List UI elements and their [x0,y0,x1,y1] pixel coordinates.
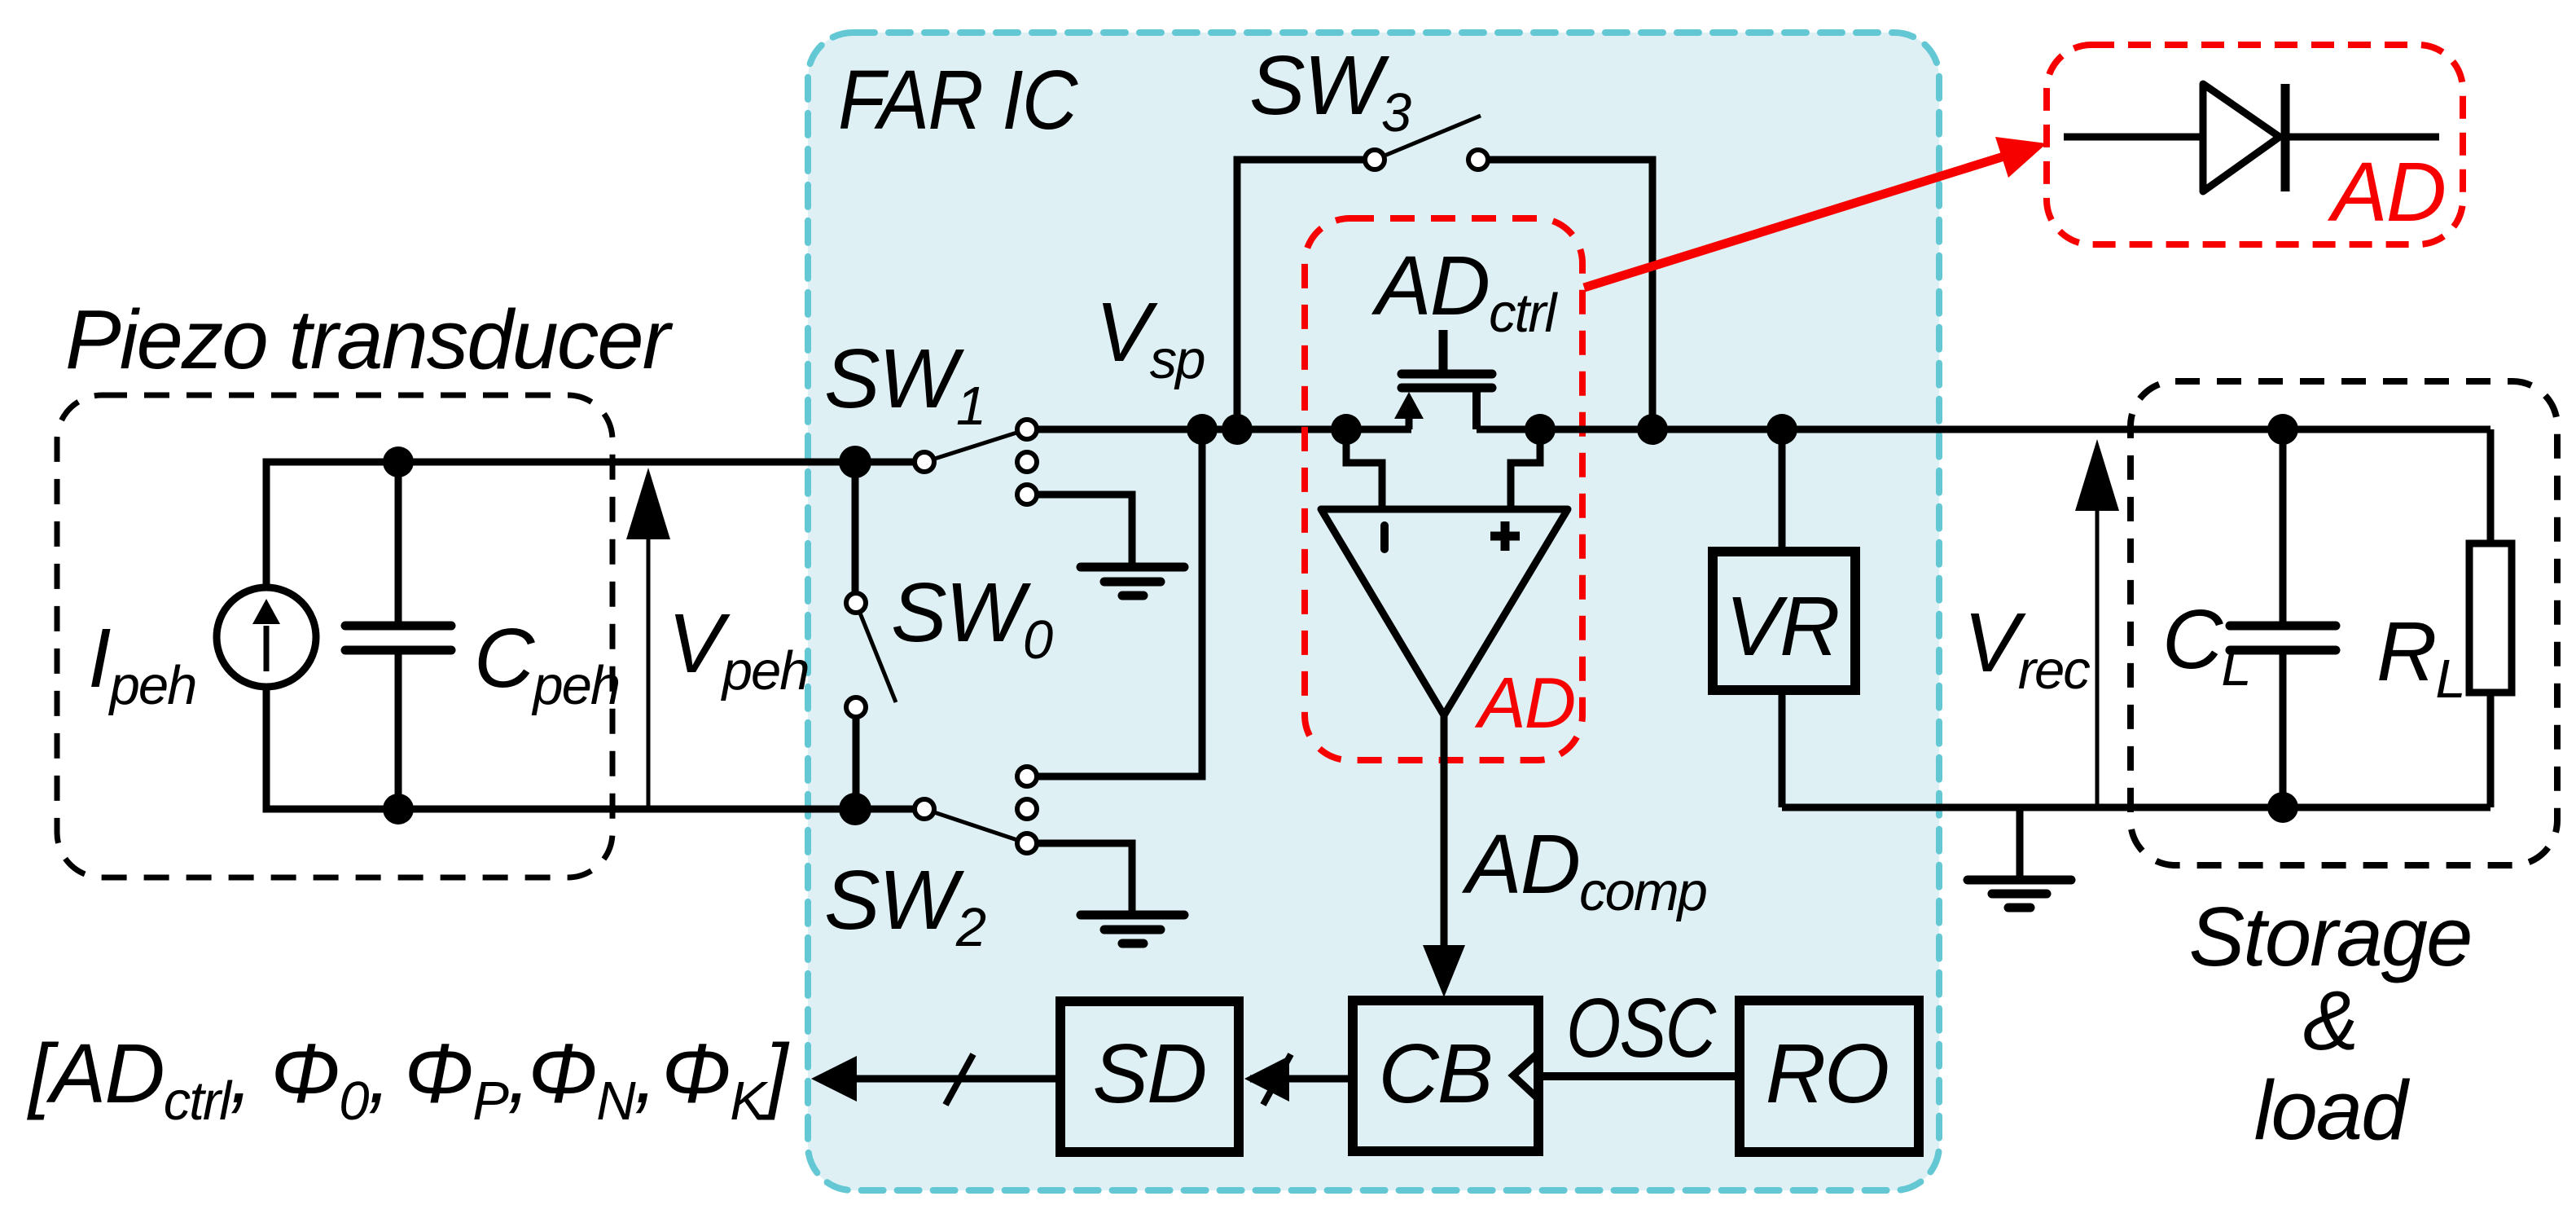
svg-text:CL: CL [2162,592,2250,697]
wire bottom rail right [1782,804,2490,811]
block VR voltage reference [1713,429,1855,807]
wire ADcomp comparator output arrow [1423,715,1707,997]
wire bus to comparator minus input [1346,429,1382,508]
svg-text:AD: AD [1474,662,1574,743]
svg-text:VR: VR [1725,579,1838,673]
svg-text:Φ0,: Φ0, [270,1027,389,1132]
transistor ADctrl [1371,239,1559,429]
resistor RL [2376,429,2512,807]
ground (SW2) [1081,915,1184,943]
node CL bottom [2267,792,2298,823]
switch SW3 [1237,38,1652,429]
Piezo transducer region box [57,292,674,877]
switch SW0 [855,462,1053,809]
Vpeh voltage arrow [626,468,809,809]
svg-text:ΦK]: ΦK] [661,1027,790,1132]
block RO [1740,1001,1919,1152]
wire SW2 bottom throw to ground [1027,843,1132,911]
node piezo top junction [383,446,414,477]
node SW2 pole [839,793,871,825]
switch SW2 [824,809,1027,958]
node SW1 pole [839,446,871,478]
wire Vsp bus (left of ADctrl transistor) [1027,426,1411,433]
node Vsp [1095,285,1253,445]
wire piezo top rail [266,462,924,588]
red callout arrow to AD legend [1584,137,2047,288]
svg-text:Vpeh: Vpeh [668,596,809,701]
switch SW1 [824,332,1027,462]
ground (output rail) [1968,807,2071,908]
wire SD output bus arrow [811,1054,1060,1105]
node bus right of transistor [1525,414,1556,445]
diode AD symbol [2064,84,2445,239]
wire SW1 top throw to Vsp bus [1027,426,1202,433]
Storage and load region box [2131,381,2557,1157]
svg-text:RO: RO [1766,1027,1889,1120]
wire OSC from RO to CB [1538,982,1740,1076]
SW3 contacts [1365,150,1488,169]
AD diode legend dashed box [2047,45,2463,244]
node CL top [2267,414,2298,445]
capacitor CL [2162,429,2336,807]
svg-text:[ADctrl,: [ADctrl, [27,1027,252,1132]
block SD [1060,1001,1239,1152]
svg-text:Ipeh: Ipeh [88,611,195,716]
wire SW1 bottom throw to ground [1027,495,1132,563]
node piezo bottom junction [383,794,414,825]
svg-text:&: & [2303,974,2358,1067]
svg-text:Storage: Storage [2189,890,2472,983]
wire piezo bottom rail [266,687,924,809]
svg-text:AD: AD [2327,145,2445,239]
net label [ADctrl, Phi0, PhiP, PhiN, PhiK] [27,1027,790,1132]
ground (SW1) [1081,567,1184,596]
AD active-diode dashed outline [1305,218,1582,760]
svg-text:load: load [2254,1063,2410,1157]
Vrec voltage arrow [1964,439,2119,807]
svg-text:SD: SD [1092,1027,1205,1120]
svg-text:CB: CB [1378,1027,1491,1120]
SW0 contacts [846,593,866,717]
wire bus to comparator plus input [1511,429,1540,508]
svg-text:FAR IC: FAR IC [838,52,1078,147]
capacitor Cpeh [345,462,619,809]
svg-text:ΦN,: ΦN, [528,1027,656,1132]
svg-text:Vrec: Vrec [1964,596,2090,701]
svg-text:Cpeh: Cpeh [474,611,619,716]
svg-text:ΦP,: ΦP, [404,1027,529,1132]
wire CB to SD bus arrow [1244,1054,1353,1105]
node bus left of comparator [1331,414,1362,445]
FAR IC block region [808,33,1939,1190]
SW2 throw contacts [1017,767,1037,853]
node VR tap [1766,414,1797,445]
wire main bus right of transistor [1477,426,2490,433]
svg-text:RL: RL [2376,605,2464,710]
wire SW2 top throw to Vsp bus [1027,429,1202,776]
comparator (AD) [1321,509,1568,715]
SW1 throw contacts [1017,420,1037,504]
block CB [1353,1001,1538,1151]
svg-text:Piezo transducer: Piezo transducer [65,292,674,386]
SW1 pole contact [915,452,934,472]
svg-text:OSC: OSC [1566,982,1717,1075]
node SW3 right on bus [1637,414,1668,445]
current source Ipeh [88,587,316,716]
SW2 pole contact [915,799,934,819]
